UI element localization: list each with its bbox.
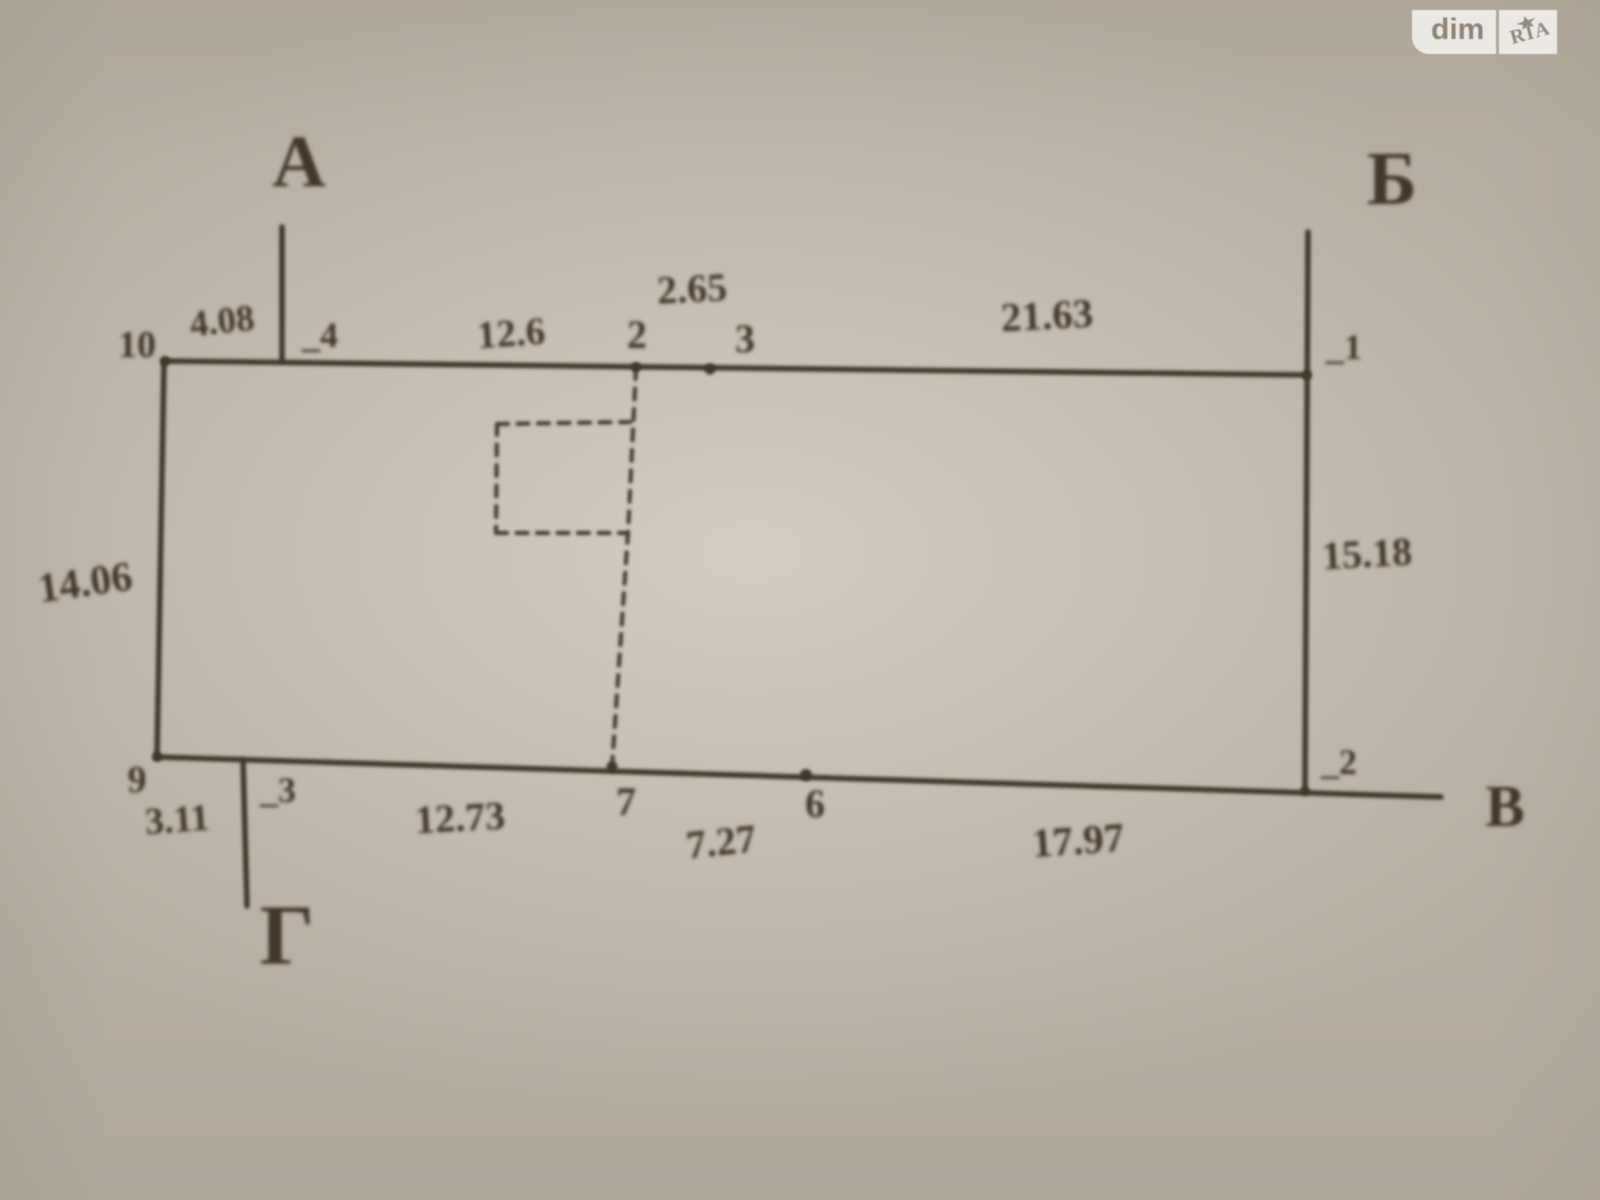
svg-text:_1: _1 <box>1325 327 1362 367</box>
svg-text:7.27: 7.27 <box>684 815 758 867</box>
wire axis G vertical <box>243 759 247 906</box>
svg-text:_3: _3 <box>259 770 296 810</box>
svg-text:6: 6 <box>805 781 825 826</box>
svg-text:21.63: 21.63 <box>1000 290 1095 341</box>
node 3 dot <box>705 364 716 375</box>
svg-text:2: 2 <box>627 312 647 357</box>
svg-text:17.97: 17.97 <box>1030 814 1125 866</box>
svg-text:12.73: 12.73 <box>414 793 506 843</box>
svg-text:2.65: 2.65 <box>656 264 728 313</box>
svg-text:Г: Г <box>260 887 315 983</box>
svg-text:_2: _2 <box>1320 742 1357 782</box>
wire dashed line node2 to node7 <box>612 368 636 767</box>
node 2 bottom corner dot <box>1301 787 1310 796</box>
star of RIA logo <box>1516 16 1535 30</box>
building dashed rectangle <box>496 422 630 533</box>
svg-text:7: 7 <box>616 779 636 824</box>
svg-text:3: 3 <box>735 316 755 361</box>
svg-text:3.11: 3.11 <box>144 797 211 843</box>
node 6 dot <box>800 769 812 781</box>
wire top boundary 10 to 1 <box>164 361 1307 375</box>
watermark dim RIA <box>1412 10 1556 54</box>
svg-text:Б: Б <box>1367 137 1417 221</box>
svg-text:12.6: 12.6 <box>475 310 546 358</box>
svg-text:14.06: 14.06 <box>35 554 135 613</box>
svg-text:А: А <box>272 121 325 203</box>
svg-text:_4: _4 <box>301 315 338 355</box>
svg-text:4.08: 4.08 <box>188 298 257 346</box>
wire axis A vertical <box>279 227 285 359</box>
node 10 corner dot <box>160 356 170 366</box>
svg-text:10: 10 <box>118 324 156 366</box>
svg-text:9: 9 <box>128 759 147 801</box>
svg-text:В: В <box>1485 773 1524 839</box>
wire left boundary 10 to 9 <box>157 361 164 757</box>
node 1 corner dot <box>1302 370 1312 380</box>
wire bottom boundary 9 to B ray <box>157 757 1441 797</box>
node 2 dot <box>631 362 641 372</box>
node 7 dot <box>607 762 618 773</box>
wire right boundary axis B line <box>1305 232 1308 791</box>
node 9 corner dot <box>152 752 162 762</box>
svg-text:15.18: 15.18 <box>1321 529 1413 579</box>
